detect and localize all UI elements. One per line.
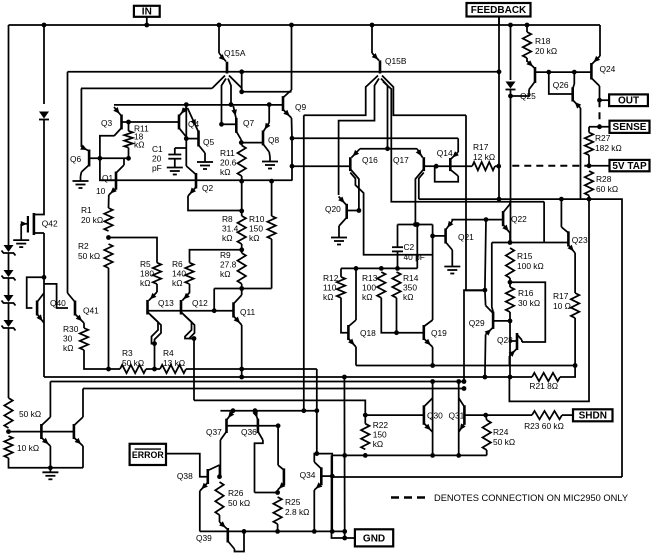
wire C2 bottom lead <box>397 251 399 268</box>
wire Q24 base rail <box>535 71 591 73</box>
transistor Q41 <box>74 301 77 316</box>
wire R30 bottom <box>84 350 120 369</box>
wire FB column <box>498 17 500 200</box>
junction x486 base node <box>484 217 489 222</box>
wire R10 bottom <box>271 239 273 289</box>
junction Q9 collector rail <box>290 164 295 169</box>
junction top rail x44 <box>42 23 47 28</box>
wire R1R2 tap <box>109 238 158 263</box>
junction R10 rail181 <box>269 179 274 184</box>
junction R9 top R6 <box>239 247 244 252</box>
wire rail y166 segment <box>292 165 330 167</box>
wire OUT lead <box>600 99 610 101</box>
wire Q11 emitter <box>241 325 243 369</box>
svg-text:R413 kΩ: R413 kΩ <box>163 348 185 368</box>
transistor Q3 <box>120 115 123 130</box>
junction Q34R base node <box>330 474 335 479</box>
resistor R9 27.8 kohm <box>238 253 246 284</box>
svg-text:R1710 Ω: R1710 Ω <box>553 291 571 311</box>
junction rail268 R13 <box>379 266 384 271</box>
wire Q18 emitter <box>355 347 357 366</box>
svg-text:R1118kΩ: R1118kΩ <box>134 124 149 150</box>
svg-text:10 kΩ: 10 kΩ <box>17 443 39 453</box>
transistor Q26 <box>571 87 574 101</box>
transistor Q37 <box>225 419 228 433</box>
resistor R16 30 kohm <box>506 287 514 312</box>
wire ground rail I <box>200 530 345 532</box>
junction R28 row <box>587 197 592 202</box>
wire pair drop2 <box>193 339 195 401</box>
wire R8R9 link <box>241 244 243 253</box>
wire R25 bottom lead <box>277 524 279 531</box>
junction R3 left <box>106 367 111 372</box>
wire Q1 base drop <box>100 158 116 180</box>
svg-text:Q24: Q24 <box>600 64 616 74</box>
wire C2 row <box>398 224 433 226</box>
wire Q41 base hook <box>44 284 68 308</box>
junction gnd lead <box>342 536 347 541</box>
wire R26 to Q39 <box>219 515 221 522</box>
wire Q39 hook <box>235 531 245 551</box>
svg-text:Q2: Q2 <box>202 183 214 193</box>
junction x242 rail71 <box>239 69 244 74</box>
wire Q14 emitter riser <box>457 138 459 152</box>
junction Q4 coll Q5 base <box>184 136 189 141</box>
junction bus1 x486 <box>483 375 488 380</box>
wire Q12 collector b <box>184 315 195 339</box>
junction SENSE node <box>597 124 602 129</box>
junction top rail R18 <box>525 23 530 28</box>
wire R24 bottom lead <box>486 450 488 455</box>
wire Q34R collector loop <box>314 454 332 532</box>
wire Q34L emitter <box>277 490 279 493</box>
resistor R5 180 kohm <box>153 263 161 284</box>
wire x464 riser <box>464 290 485 381</box>
transistor Q38 <box>207 469 210 484</box>
junction Q9 emitter wire <box>239 89 244 94</box>
wire x242 drop <box>241 369 243 377</box>
junction Q12 pair <box>192 336 197 341</box>
wire x417 drop <box>416 225 418 269</box>
svg-text:SHDN: SHDN <box>579 411 607 422</box>
wire Q21 collector drop <box>451 250 453 262</box>
transistor Q30 <box>423 405 426 425</box>
wire R12 bottom <box>341 298 348 333</box>
wire C2 top lead <box>397 225 399 248</box>
svg-text:R13100kΩ: R13100kΩ <box>362 273 378 302</box>
svg-text:Q22: Q22 <box>511 214 527 224</box>
wire row y199 <box>419 199 622 477</box>
wire R16 lower lead <box>509 312 511 321</box>
svg-text:Q30: Q30 <box>427 411 443 421</box>
wire pair drop1 <box>154 344 156 369</box>
wire Q15B emitter lead <box>371 25 373 53</box>
resistor R25 2.8 kohm <box>273 497 281 524</box>
wire rail F <box>332 454 487 456</box>
svg-text:FEEDBACK: FEEDBACK <box>471 5 527 16</box>
svg-text:Q19: Q19 <box>431 328 447 338</box>
junction divider tap <box>6 429 11 434</box>
svg-text:DENOTES CONNECTION ON MIC2950: DENOTES CONNECTION ON MIC2950 ONLY <box>434 493 628 503</box>
resistor 10 kohm divider <box>4 436 12 458</box>
wire Q43 collector riser <box>49 382 51 418</box>
wire Q19 emitter <box>432 347 434 366</box>
wire Q6 base rail <box>89 157 128 159</box>
net label OUT box <box>609 94 648 106</box>
svg-text:Q26: Q26 <box>553 80 569 90</box>
wire Q31 base wire <box>464 414 532 416</box>
wire R6 top <box>190 250 243 263</box>
junction x317 rail <box>314 408 319 413</box>
wire Q20 collector <box>338 226 340 233</box>
junction Q11 base <box>212 308 217 313</box>
transistor Q40 <box>36 301 39 316</box>
junction pair drop R3 <box>152 367 157 372</box>
junction x510 bus1 <box>508 375 513 380</box>
transistor Q24 <box>590 63 593 80</box>
svg-text:Q14: Q14 <box>437 148 453 158</box>
wire Q9 emitter horiz <box>242 91 292 93</box>
junction Q21 base <box>430 234 435 239</box>
svg-text:SENSE: SENSE <box>613 122 647 133</box>
junction railE end <box>573 363 578 368</box>
junction ground rail <box>48 465 53 470</box>
wire Q26 emitter drop <box>580 108 582 199</box>
svg-text:Q16: Q16 <box>362 155 378 165</box>
wire collector rail y88 <box>81 87 212 89</box>
junction R22 top <box>363 413 368 418</box>
junction Q20 base <box>357 208 362 213</box>
transistor Q34R <box>320 467 323 485</box>
transistor Q28 <box>516 333 519 350</box>
wire Q25 collector hook <box>511 90 530 97</box>
resistor R18 20 kohm <box>523 32 531 58</box>
wire 5VTAP lead <box>589 165 610 167</box>
junction x317 y453 <box>314 451 319 456</box>
wire x510 lower <box>510 90 512 243</box>
ground C1 <box>174 163 176 168</box>
transistor Q1 <box>115 172 118 190</box>
junction x464 bus2 <box>462 379 467 384</box>
wire base rail Q13Q11 <box>148 310 234 312</box>
junction R9 bottom <box>239 286 244 291</box>
transistor Q15B <box>379 60 382 73</box>
junction R11a bottom <box>126 156 131 161</box>
transistor Q42 <box>33 213 36 235</box>
wire Q17 pair b <box>419 173 424 200</box>
wire Q1 collector <box>123 158 125 165</box>
wire base rail y71 <box>68 71 500 73</box>
junction base rail Q26b <box>572 70 577 75</box>
wire x486 vertical <box>485 220 486 291</box>
wire bus1 <box>44 376 532 378</box>
junction Q36 base node <box>276 423 281 428</box>
wire R16 box <box>510 282 545 342</box>
capacitor C2 <box>392 246 403 248</box>
wire ERROR lead <box>166 454 208 477</box>
wire Q44 emitter drop <box>82 446 84 468</box>
junction R1 R2 <box>106 235 111 240</box>
wire Q20 base <box>347 210 359 212</box>
wire Q37 rail <box>220 410 316 412</box>
wire Q16Q17 emitter rail <box>360 148 417 150</box>
junction x332 bottom <box>330 529 335 534</box>
dashed OUT-SENSE <box>599 100 601 127</box>
wire R15R16 link <box>509 278 511 287</box>
resistor R17 12 kohm <box>472 162 495 170</box>
wire x44 to Q42 <box>34 120 44 215</box>
transistor Q14 <box>449 158 452 171</box>
junction Q39 hook <box>242 529 247 534</box>
wire R18 bottom <box>526 58 528 62</box>
wire R11a bottom lead <box>128 148 130 159</box>
resistor R6 140 kohm <box>185 263 193 284</box>
junction y105 inner collector <box>229 102 234 107</box>
wire Q34R emitter drop <box>313 490 315 531</box>
net label SENSE box <box>610 121 650 133</box>
svg-text:Q34: Q34 <box>300 470 316 480</box>
svg-text:Q41: Q41 <box>83 306 99 316</box>
svg-text:Q12: Q12 <box>192 298 208 308</box>
wire Q23 emitter drop <box>574 253 576 293</box>
junction Q37 emitter <box>231 408 236 413</box>
wire Q11 base drop <box>213 289 215 311</box>
wire Q3 collector hook <box>100 136 114 159</box>
wire rail jog x292 <box>291 166 293 180</box>
svg-text:R21 8Ω: R21 8Ω <box>529 381 558 391</box>
wire Q42 gate to ground <box>20 224 22 236</box>
wire Q34R base <box>321 475 332 477</box>
wire Q17 pair a <box>415 169 423 225</box>
svg-text:Q7: Q7 <box>243 118 255 128</box>
svg-text:OUT: OUT <box>618 96 639 107</box>
svg-text:R252.8 kΩ: R252.8 kΩ <box>285 497 309 517</box>
svg-text:Q39: Q39 <box>196 533 212 543</box>
junction R15 bottom <box>508 280 513 285</box>
transistor Q44 right sense <box>73 424 76 439</box>
svg-text:Q5: Q5 <box>203 137 215 147</box>
wire x242 from rail71 <box>241 72 243 92</box>
net label GND box <box>355 529 393 546</box>
transistor Q13 <box>146 300 149 315</box>
transistor Q20 <box>345 204 348 219</box>
wire Q18 collector riser <box>355 268 357 320</box>
wire R6 to Q12 <box>189 284 191 292</box>
svg-text:R2860 kΩ: R2860 kΩ <box>596 174 618 194</box>
junction Q7 base node <box>219 122 224 127</box>
svg-text:GND: GND <box>363 533 385 544</box>
wire R8 top lead <box>241 211 243 216</box>
wire Q6 collector drop <box>80 172 83 177</box>
wire R14 bottom <box>396 298 398 333</box>
wire Q41 emitter lead <box>83 323 85 328</box>
wire R11b top <box>240 143 242 146</box>
transistor Q2 <box>195 173 198 189</box>
svg-text:C240 pF: C240 pF <box>404 242 425 262</box>
wire C1 top lead <box>174 148 176 155</box>
ground Q20 <box>338 233 340 238</box>
net label FEEDBACK box <box>467 3 531 17</box>
wire Q6 emitter riser <box>80 88 82 147</box>
junction Q23 coll rail <box>559 197 564 202</box>
svg-text:Q8: Q8 <box>268 135 280 145</box>
ground Q42 gate <box>20 236 22 241</box>
svg-text:Q1: Q1 <box>102 173 114 183</box>
net label 5V TAP box <box>610 160 650 171</box>
junction Q7 coll Q8 base <box>239 140 244 145</box>
wire Q22 emitter <box>509 233 511 243</box>
resistor R26 50 kohm <box>215 482 223 515</box>
junction bus1 x344 <box>342 375 347 380</box>
junction railE Q19 <box>430 363 435 368</box>
wire Q38 emitter drop <box>199 491 201 531</box>
svg-text:R2650 kΩ: R2650 kΩ <box>228 488 250 508</box>
wire zener link2 <box>8 278 10 296</box>
wire railF left drop <box>332 455 355 538</box>
svg-text:Q13: Q13 <box>158 298 174 308</box>
resistor R12 110 kohm <box>337 277 345 298</box>
wire Q8 emitter feed <box>268 105 270 123</box>
wire top rail <box>9 24 601 26</box>
wire Q26 base drop <box>549 72 573 94</box>
svg-text:Q38: Q38 <box>177 471 193 481</box>
wire R28 bottom loop <box>509 196 589 402</box>
junction R16 bottom <box>508 319 513 324</box>
junction railF R22 <box>363 453 368 458</box>
junction y138 left <box>290 136 295 141</box>
svg-text:ERROR: ERROR <box>132 450 164 460</box>
transistor Q23 <box>567 231 570 246</box>
net label ERROR box <box>130 444 166 465</box>
svg-text:Q20: Q20 <box>325 204 341 214</box>
junction R25 bottom <box>275 529 280 534</box>
svg-text:Q36: Q36 <box>241 427 257 437</box>
zener diode D2 <box>4 270 14 277</box>
junction OUT node <box>597 98 602 103</box>
diode D5 <box>39 112 49 119</box>
wire Q29 collector riser <box>484 290 487 305</box>
wire R11a leads <box>128 122 130 131</box>
wire Q8 collector drop <box>268 152 271 157</box>
wire Q7 base <box>222 123 237 125</box>
resistor R27 182 kohm <box>585 133 593 156</box>
svg-text:Q18: Q18 <box>360 328 376 338</box>
svg-text:R23 60 kΩ: R23 60 kΩ <box>524 421 564 431</box>
junction R8 top node <box>239 209 244 214</box>
junction bus2 Q31 <box>456 379 461 384</box>
junction Q6 base node <box>98 156 103 161</box>
transistor Q7 <box>235 118 238 133</box>
junction R25 top <box>275 490 280 495</box>
junction Q16Q17 rail <box>385 146 390 151</box>
wire Q2 emitter drop <box>188 196 242 211</box>
net label SHDN box <box>573 409 613 421</box>
ground bottom-left <box>49 468 51 473</box>
svg-text:5V TAP: 5V TAP <box>612 161 647 172</box>
wire R17b bottom <box>574 318 576 366</box>
wire x458 vertical <box>458 382 460 456</box>
svg-text:R3030kΩ: R3030kΩ <box>63 324 79 353</box>
svg-text:Q37: Q37 <box>206 427 222 437</box>
wire R12 top lead <box>340 268 342 277</box>
wire Q13 collector b <box>151 315 162 344</box>
wire x44 upper <box>43 25 45 104</box>
wire Q14 collector loop <box>435 166 459 182</box>
junction R11a top <box>126 120 131 125</box>
wire x344 gnd column <box>343 377 345 538</box>
transistor Q5 <box>197 131 200 147</box>
junction railF x344 <box>342 453 347 458</box>
transistor Q34L <box>283 468 286 485</box>
wire Q41 collector riser <box>67 72 69 293</box>
junction base rail Q26a <box>546 70 551 75</box>
wire Q28 collector lead <box>521 340 523 342</box>
junction Q36 emitter <box>253 408 258 413</box>
svg-text:R2450 kΩ: R2450 kΩ <box>493 427 515 447</box>
wire Q12 collector a <box>181 312 194 339</box>
wire Q5 collector drop <box>204 153 206 158</box>
svg-text:R10150kΩ: R10150kΩ <box>249 214 265 243</box>
resistor R28 60 kohm <box>585 171 593 196</box>
wire R24 top lead <box>486 415 487 420</box>
junction 5VTAP node <box>587 163 592 168</box>
junction gnd rail end <box>342 529 347 534</box>
resistor R30 30 kohm <box>80 328 88 350</box>
wire R17 to dot <box>495 165 499 167</box>
transistor Q21 <box>444 228 447 243</box>
ground Q21 <box>451 262 453 267</box>
resistor R13 100 kohm <box>377 272 385 298</box>
wire Q43 emitter drop <box>49 446 51 468</box>
wire Q15B coll right drop <box>466 115 486 290</box>
svg-text:R1820 kΩ: R1820 kΩ <box>535 36 557 56</box>
junction FB rail71 <box>497 69 502 74</box>
junction Q13 pair <box>152 341 157 346</box>
wire x292 upper <box>291 138 293 166</box>
wire Q14 row <box>436 165 472 167</box>
wire y138 rail <box>292 137 458 139</box>
transistor Q4 <box>178 115 181 130</box>
junction y105 Q8 <box>267 102 272 107</box>
wire mirror rail y268 <box>341 267 417 269</box>
resistor R22 150 kohm <box>361 424 369 450</box>
wire base wire y242 <box>492 242 569 244</box>
junction R4 x242 <box>239 367 244 372</box>
junction R24 top <box>483 413 488 418</box>
resistor R23 60 kohm <box>532 411 562 419</box>
wire x510 to bus1 <box>509 321 511 377</box>
transistor Q39 <box>227 528 230 543</box>
svg-text:Q28: Q28 <box>497 335 513 345</box>
wire R2 bottom <box>108 268 110 369</box>
wire R23 to SHDN <box>562 414 573 416</box>
junction top rail diode <box>508 23 513 28</box>
wire x510 upper <box>510 25 512 80</box>
svg-text:Q15A: Q15A <box>224 48 246 58</box>
wire Q17 base <box>424 165 436 167</box>
wire Q26 collector riser <box>573 72 575 84</box>
wire Q28 emitter drop <box>508 356 510 366</box>
wire R5 to Q13 <box>156 284 158 292</box>
wire C1 link <box>175 147 187 149</box>
wire R3R4 link <box>146 368 160 370</box>
junction R17 node <box>496 164 501 169</box>
legend dashed sample <box>391 496 427 498</box>
transistor Q17 <box>422 157 425 171</box>
junction top rail Q15B emitter <box>370 23 375 28</box>
wire bus2 <box>50 381 464 383</box>
wire Q13 collector a <box>148 312 159 344</box>
